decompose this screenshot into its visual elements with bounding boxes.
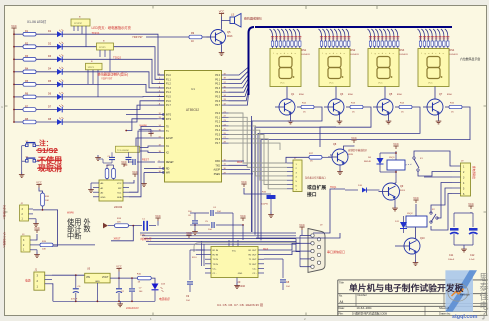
- svg-text:RD: RD: [166, 169, 170, 171]
- svg-text:YDFY97: YDFY97: [132, 35, 143, 39]
- svg-text:stgql.com: stgql.com: [452, 314, 478, 320]
- transistor Q10: [400, 237, 425, 254]
- resistor R14 base: [395, 103, 412, 114]
- ground Q1: [288, 114, 294, 124]
- svg-text:DS3: DS3: [400, 49, 405, 52]
- resistor R8: [13, 118, 36, 124]
- transistor Q5: [207, 30, 233, 45]
- svg-text:XRST: XRST: [114, 237, 121, 241]
- node VCC t inputs: [150, 134, 152, 137]
- resistor R17: [286, 153, 332, 163]
- ground caps: [190, 225, 198, 234]
- LED D24 power: [151, 278, 166, 301]
- ground power rail: [53, 300, 155, 306]
- connector J3: [21, 234, 35, 252]
- svg-text:TDQ1: TDQ1: [330, 186, 337, 189]
- wire X1 X2 to resonator: [140, 146, 158, 148]
- relay K2 coil: [406, 213, 427, 227]
- svg-text:100uF: 100uF: [448, 259, 455, 261]
- wire gray signal: [194, 243, 296, 252]
- pushbutton S1: [22, 141, 39, 147]
- pushbutton S2: [22, 157, 39, 163]
- svg-text:X1-X6 LED灯: X1-X6 LED灯: [27, 19, 47, 24]
- svg-text:11K: 11K: [117, 222, 121, 224]
- capacitor C6b 104: [188, 211, 198, 229]
- svg-text:1P1P1P: 1P1P1P: [74, 23, 83, 25]
- capacitor C5x 30P: [124, 152, 132, 167]
- svg-text:P1.7: P1.7: [166, 105, 171, 107]
- svg-text:P1.4: P1.4: [166, 92, 171, 94]
- wire led row 4 to U1 P1.3: [62, 72, 164, 88]
- svg-text:VCC: VCC: [428, 83, 433, 85]
- svg-text:VCC: VCC: [219, 9, 225, 13]
- svg-text:电源指示: 电源指示: [159, 297, 170, 301]
- resistor R2: [13, 43, 36, 49]
- IC U2 24C02: [93, 180, 129, 209]
- ground J3: [34, 250, 40, 258]
- svg-text:P2.3: P2.3: [215, 126, 220, 128]
- svg-text:VCC: VCC: [121, 160, 127, 164]
- svg-text:R1 0: R1 0: [192, 257, 197, 259]
- capacitor C2 elec: [116, 278, 125, 301]
- svg-text:ALE/P: ALE/P: [213, 169, 220, 172]
- svg-text:RESET: RESET: [166, 162, 174, 164]
- capacitor C1 reset: [128, 159, 155, 165]
- capacitor C6 470uF: [71, 275, 81, 301]
- svg-text:R1 IN: R1 IN: [213, 250, 219, 252]
- svg-text:RXD: RXD: [215, 161, 220, 163]
- svg-text:1K: 1K: [191, 40, 194, 43]
- speaker LS1: [230, 13, 241, 28]
- wire digit select 3: [258, 107, 420, 238]
- ground 24C02: [88, 183, 94, 192]
- svg-text:TXD: TXD: [215, 165, 220, 167]
- svg-text:Revision: Revision: [460, 293, 471, 297]
- svg-text:DS2: DS2: [351, 49, 356, 52]
- svg-text:串口通信接口: 串口通信接口: [327, 249, 345, 254]
- resonator T1 box: [115, 146, 139, 152]
- wire xrst: [111, 226, 133, 241]
- ground J2: [33, 219, 39, 227]
- svg-text:10K: 10K: [42, 249, 46, 251]
- U1 pins P0.0-P0.7: [215, 73, 228, 107]
- resistor R10 pullup input: [39, 188, 50, 210]
- svg-text:LED4011: LED4011: [351, 54, 360, 56]
- svg-text:VCC: VCC: [241, 180, 247, 184]
- LED D5: [36, 80, 64, 88]
- transistor Q5 digit driver: [373, 87, 403, 116]
- resistor R3: [13, 55, 36, 61]
- svg-text:8550: 8550: [299, 94, 305, 96]
- bus top corner: [249, 27, 255, 33]
- svg-text:P0.5: P0.5: [215, 97, 220, 99]
- wire led row 8 to U1 P1.7: [62, 105, 164, 122]
- wire control bundle right: [252, 116, 346, 238]
- capacitor C4x 30P: [106, 152, 115, 167]
- node VCC mid2: [243, 184, 245, 187]
- wire EA pullup: [136, 138, 158, 146]
- capacitor C10 10uF: [244, 188, 276, 217]
- wire bottom bundle: [140, 233, 300, 266]
- svg-text:P2.0: P2.0: [215, 113, 220, 115]
- ground MAX232: [234, 278, 240, 289]
- svg-text:SDA: SDA: [117, 196, 122, 199]
- svg-text:No.: No.: [339, 295, 343, 298]
- svg-text:子: 子: [480, 311, 489, 321]
- driver U7 box: [97, 41, 114, 72]
- node VCC below chip: [134, 174, 136, 177]
- capacitor C4 104: [190, 207, 233, 216]
- svg-text:VCC: VCC: [299, 223, 305, 227]
- wire P2 staircase to right gray: [229, 113, 288, 189]
- capacitor C9 left: [186, 250, 205, 302]
- svg-text:8550: 8550: [348, 94, 354, 96]
- svg-text:继电器输出: 继电器输出: [472, 166, 476, 179]
- svg-text:电源: 电源: [25, 279, 31, 283]
- svg-text:MAX: MAX: [263, 248, 269, 251]
- node VCC relay2: [415, 200, 417, 203]
- svg-text:P0.3: P0.3: [215, 88, 220, 90]
- svg-text:蜂鸣器或喇叭: 蜂鸣器或喇叭: [244, 16, 262, 21]
- svg-text:PSEN: PSEN: [214, 174, 221, 176]
- display DS4: [418, 49, 459, 87]
- svg-text:TDQ1: TDQ1: [92, 31, 100, 35]
- svg-text:T1 OUT: T1 OUT: [249, 259, 257, 261]
- wire INT0: [126, 114, 158, 116]
- wire digit select 2: [255, 107, 371, 235]
- LED D1: [36, 29, 64, 37]
- node VCC max area: [188, 235, 190, 238]
- svg-text:P1.3: P1.3: [166, 88, 171, 90]
- svg-text:外部计数输入: 外部计数输入: [3, 205, 7, 220]
- wire pullup vcc: [107, 164, 114, 166]
- svg-text:P0.6: P0.6: [215, 101, 220, 103]
- node VCC DB9: [299, 223, 305, 235]
- svg-text:8550: 8550: [397, 94, 403, 96]
- crystal C1 clock: [129, 219, 157, 237]
- svg-text:YDFY97: YDFY97: [101, 76, 113, 80]
- svg-text:P1.5: P1.5: [166, 97, 171, 99]
- svg-text:六位数码显示窗: 六位数码显示窗: [460, 56, 480, 61]
- wire 24C02 right vcc: [129, 180, 134, 183]
- label watermark chars: [480, 273, 489, 321]
- resistor R16: [137, 274, 151, 284]
- resistor R15b input: [35, 234, 95, 251]
- svg-text:EA/VP: EA/VP: [166, 137, 173, 140]
- capacitor C12: [469, 213, 478, 261]
- ground S buttons: [19, 146, 25, 178]
- svg-text:C11: C11: [449, 254, 454, 257]
- LED D2: [36, 42, 64, 50]
- svg-text:VCC: VCC: [155, 214, 161, 218]
- svg-text:GND: GND: [238, 273, 243, 275]
- ground RD WR: [143, 181, 145, 184]
- wire power in: [52, 274, 85, 276]
- diode D8: [364, 153, 384, 172]
- wire DB9 feeds: [264, 236, 311, 267]
- svg-text:MCB: MCB: [348, 154, 353, 156]
- LED D8: [36, 117, 64, 125]
- svg-text:P0.7: P0.7: [215, 105, 220, 107]
- relay K1 coil: [387, 157, 405, 170]
- resistor R9 1K: [146, 32, 210, 43]
- ground Q5 emitter: [219, 45, 225, 56]
- svg-text:DS1: DS1: [302, 49, 307, 52]
- pin bubbles: [162, 114, 164, 174]
- transistor Q9: [379, 183, 406, 200]
- wire led row 6 to U1 P1.5: [62, 96, 164, 98]
- svg-text:P2.6: P2.6: [215, 139, 220, 141]
- wire RD WR: [144, 168, 158, 170]
- label note S1 S2 line4: [37, 163, 62, 173]
- wire digit select 4: [261, 107, 470, 240]
- ground resonator: [95, 155, 112, 163]
- svg-text:AT89C52: AT89C52: [186, 108, 199, 112]
- ground Q9: [392, 200, 398, 211]
- svg-text:10uF/6: 10uF/6: [261, 204, 269, 206]
- svg-text:9013: 9013: [227, 35, 233, 38]
- svg-text:C2+: C2+: [252, 268, 257, 270]
- svg-text:C4· C5· C6· C7· C8· 10uF/6.3V: C4· C5· C6· C7· C8· 10uF/6.3V 钽: [217, 302, 263, 307]
- svg-text:U3: U3: [237, 280, 241, 284]
- wire led row 2 to U1 P1.1: [62, 47, 164, 80]
- wire t pullup: [139, 128, 151, 130]
- wire led supply rail: [13, 31, 15, 122]
- svg-text:P0.1: P0.1: [215, 79, 220, 81]
- ground Q8: [337, 165, 343, 174]
- svg-text:接口: 接口: [307, 191, 317, 198]
- LED D3: [36, 54, 64, 62]
- svg-text:P1.2: P1.2: [166, 84, 171, 86]
- capacitor C7 104: [129, 278, 143, 301]
- svg-text:8550: 8550: [447, 94, 453, 96]
- IC U3 MAX232: [205, 247, 264, 278]
- connector J2: [20, 203, 34, 221]
- wire Q10 nets: [415, 227, 417, 239]
- title block frame: [338, 280, 487, 316]
- diode D10: [345, 185, 380, 193]
- svg-text:Drawn by:: Drawn by:: [439, 311, 451, 315]
- svg-text:10-JUL-2004: 10-JUL-2004: [357, 306, 373, 310]
- svg-text:9013: 9013: [400, 190, 406, 192]
- svg-text:470uF: 470uF: [71, 299, 78, 301]
- resistor R4: [13, 68, 36, 74]
- connector J7 expansion: [287, 158, 302, 192]
- wire relay1 to J9: [424, 176, 452, 178]
- svg-text:T1 IN: T1 IN: [213, 259, 219, 261]
- svg-text:C1+: C1+: [213, 268, 218, 270]
- svg-text:VCC: VCC: [351, 136, 357, 140]
- svg-text:220uF/16V: 220uF/16V: [126, 306, 139, 310]
- node VCC J2: [38, 185, 40, 188]
- regulator U5 7805: [85, 268, 110, 302]
- resistor R15 base: [445, 103, 462, 114]
- node VCC caps: [240, 214, 246, 226]
- display DS1 drop wires: [270, 29, 302, 49]
- svg-text:File:: File:: [339, 311, 344, 315]
- wire INT1: [126, 119, 157, 131]
- svg-text:KA-B 电源输入: KA-B 电源输入: [3, 232, 7, 248]
- bus vertical: [229, 33, 249, 105]
- node VCC relay1: [395, 146, 397, 149]
- U1 left control pins: [158, 113, 175, 175]
- svg-text:Sheet of: Sheet of: [439, 306, 449, 310]
- svg-text:P2.5: P2.5: [215, 135, 220, 137]
- svg-text:P0.4: P0.4: [215, 92, 220, 94]
- svg-text:C2 -: C2 -: [252, 273, 256, 275]
- U1 pins P1.0-P1.7: [158, 73, 172, 107]
- svg-text:LED4011: LED4011: [400, 54, 409, 56]
- wire led row 3 to U1 P1.2: [62, 59, 164, 83]
- svg-text:Date:: Date:: [339, 306, 345, 310]
- svg-text:VCC: VCC: [378, 83, 383, 85]
- wire serial to MAX232: [229, 161, 254, 174]
- svg-text:单片机与电子制作试验开发板: 单片机与电子制作试验开发板: [349, 282, 464, 293]
- resistor R1: [13, 30, 36, 36]
- svg-text:C4: C4: [108, 156, 110, 158]
- diode D11: [395, 216, 407, 233]
- svg-text:P2.4: P2.4: [215, 130, 220, 132]
- svg-text:VCC: VCC: [34, 226, 40, 230]
- svg-text:MAX: MAX: [237, 161, 243, 164]
- svg-text:P1.1: P1.1: [166, 79, 171, 81]
- node VCC caps right: [470, 206, 472, 209]
- driver U8 box: [86, 61, 103, 97]
- svg-text:T2 OUT: T2 OUT: [249, 264, 257, 266]
- wire led row 5 to U1 P1.4: [62, 84, 164, 92]
- svg-text:思: 思: [480, 273, 489, 283]
- node VCC J3: [36, 230, 38, 233]
- resistor R14 11K: [103, 218, 129, 228]
- connector J9 relay out: [452, 161, 471, 197]
- svg-text:VIN: VIN: [86, 276, 90, 279]
- LED D7: [36, 105, 64, 113]
- LED D4: [36, 67, 64, 75]
- ground Q10: [413, 254, 419, 265]
- display DS1: [270, 49, 311, 87]
- svg-text:WP: WP: [118, 188, 122, 190]
- ground caps right: [454, 245, 473, 252]
- svg-text:TDQ2: TDQ2: [113, 56, 121, 60]
- svg-text:P2.1: P2.1: [215, 117, 220, 119]
- svg-text:C1 -: C1 -: [213, 273, 217, 275]
- svg-text:VCC: VCC: [329, 83, 334, 85]
- svg-text:VCC: VCC: [11, 24, 17, 28]
- svg-text:泰: 泰: [480, 281, 489, 292]
- svg-text:VCC: VCC: [116, 264, 122, 268]
- svg-text:JDQ1: JDQ1: [389, 157, 395, 159]
- svg-text:Title: Title: [339, 280, 344, 284]
- ground Q5: [386, 114, 392, 124]
- display DS4 drop wires: [418, 29, 450, 49]
- svg-text:DS4: DS4: [450, 49, 455, 52]
- svg-text:TI 11.0592M: TI 11.0592M: [117, 150, 129, 152]
- svg-text:电: 电: [480, 300, 489, 311]
- svg-text:R1 OUT: R1 OUT: [248, 250, 257, 252]
- transistor Q3 digit driver: [324, 87, 354, 116]
- svg-text:R2 OUT: R2 OUT: [248, 255, 257, 257]
- driver U6 box: [71, 17, 90, 47]
- svg-text:24C02: 24C02: [114, 205, 123, 209]
- svg-text:GND: GND: [95, 281, 100, 283]
- svg-text:中断: 中断: [67, 232, 81, 241]
- logo watermark: [445, 270, 477, 311]
- svg-text:LS: LS: [231, 13, 234, 17]
- resistor R5: [13, 80, 36, 86]
- relay K1 contacts: [406, 157, 424, 171]
- node VCC power: [116, 264, 122, 278]
- svg-text:VCC: VCC: [240, 214, 246, 218]
- svg-text:INT1: INT1: [166, 119, 172, 121]
- svg-text:VCC: VCC: [393, 142, 399, 146]
- resistor R12 pullup: [112, 165, 116, 181]
- capacitor C11: [448, 213, 459, 261]
- svg-text:佳: 佳: [480, 291, 489, 302]
- svg-text:P0.0: P0.0: [215, 75, 220, 77]
- svg-text:P2.7: P2.7: [215, 143, 220, 145]
- svg-text:VCC: VCC: [36, 180, 42, 184]
- U1 pins P2.0-P2.7: [215, 111, 228, 145]
- label note S1 S2 line2: [36, 146, 58, 155]
- transistor Q8: [328, 143, 354, 165]
- node VCC clock: [155, 214, 161, 226]
- wire 24C02 scl sda: [129, 131, 158, 192]
- connector J1 power: [34, 269, 52, 291]
- svg-text:U1: U1: [191, 87, 195, 91]
- svg-text:LED亮灭：继电器指示灯亮: LED亮灭：继电器指示灯亮: [92, 25, 132, 30]
- svg-text:WWW: WWW: [67, 212, 75, 215]
- transistor Q1 digit driver: [275, 87, 305, 116]
- U1 serial pins: [213, 159, 228, 176]
- svg-text:时钟信号: 时钟信号: [141, 237, 152, 241]
- svg-text:WR: WR: [166, 173, 170, 175]
- svg-text:VCC: VCC: [468, 202, 474, 206]
- op-amp U1 AT89C52 body: [165, 71, 222, 183]
- wire relay2 to J9: [431, 183, 452, 231]
- LED D6: [36, 92, 64, 100]
- label note S1 S2 line3: [37, 155, 62, 165]
- svg-text:1P1P1: 1P1P1: [88, 67, 95, 69]
- capacitor C5 104: [198, 221, 243, 231]
- svg-text:P1.6: P1.6: [166, 101, 171, 103]
- wire led row 1 to U1 P1.0: [62, 34, 164, 75]
- wire relay1 coil nets: [380, 152, 396, 154]
- svg-text:JDQ2: JDQ2: [407, 213, 413, 215]
- svg-text:VCC: VCC: [413, 196, 419, 200]
- svg-text:P2.2: P2.2: [215, 122, 220, 124]
- node VCC led supply: [13, 28, 15, 31]
- wire J2 to net: [33, 210, 58, 246]
- svg-text:VCC: VCC: [117, 183, 122, 185]
- capacitor C8r right: [264, 259, 290, 290]
- svg-text:Number: Number: [358, 293, 367, 297]
- bus horizontal display feed: [255, 26, 452, 28]
- node VCC speaker: [221, 14, 223, 17]
- svg-text:P1.0: P1.0: [166, 75, 171, 77]
- resistor R6: [13, 93, 36, 99]
- wire caps vcc: [454, 212, 473, 214]
- svg-text:INT0: INT0: [166, 115, 172, 117]
- svg-text:R2 IN: R2 IN: [213, 255, 219, 257]
- node VCC 24C02 pullups: [123, 164, 125, 167]
- node VCC Q8: [353, 140, 355, 143]
- ground Q7: [436, 114, 442, 124]
- wire led row 7 to U1 P1.6: [62, 101, 164, 110]
- wire Q9 collector: [395, 183, 396, 184]
- resistor R7: [13, 105, 36, 111]
- resistor R13 base: [346, 103, 363, 114]
- wire caps to max232: [232, 213, 234, 240]
